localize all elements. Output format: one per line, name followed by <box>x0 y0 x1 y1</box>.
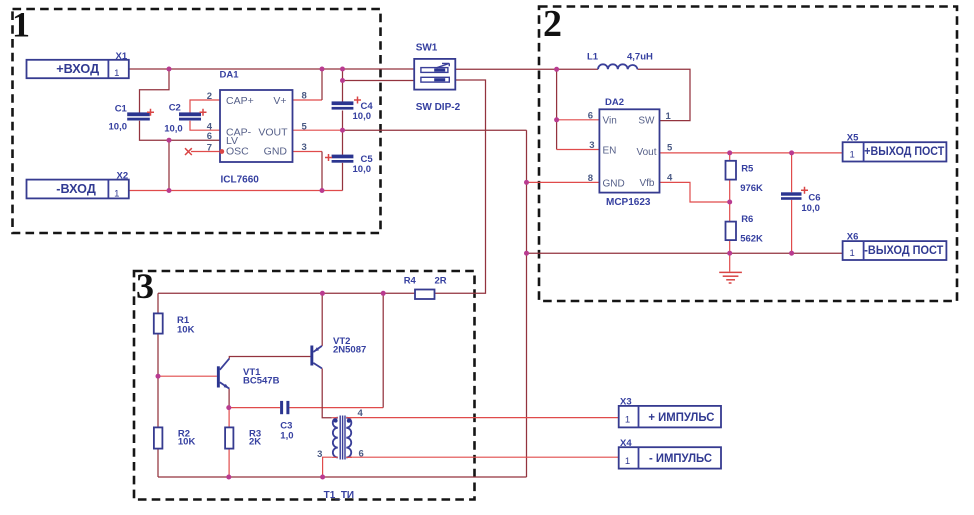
svg-text:3: 3 <box>136 266 154 306</box>
svg-text:X2: X2 <box>117 171 129 182</box>
svg-text:7: 7 <box>207 142 212 153</box>
svg-text:2K: 2K <box>249 437 261 448</box>
svg-text:X1: X1 <box>116 51 128 62</box>
svg-text:GND: GND <box>264 146 288 158</box>
svg-text:C1: C1 <box>115 104 128 115</box>
svg-text:10,0: 10,0 <box>353 164 372 175</box>
svg-text:3: 3 <box>589 140 594 151</box>
svg-text:6: 6 <box>207 131 212 142</box>
svg-text:SW: SW <box>638 116 655 127</box>
svg-text:6: 6 <box>588 111 593 122</box>
svg-text:CAP+: CAP+ <box>226 95 254 107</box>
svg-text:DA2: DA2 <box>605 97 624 108</box>
svg-text:8: 8 <box>588 173 593 184</box>
svg-text:2N5087: 2N5087 <box>333 345 366 356</box>
svg-text:R6: R6 <box>741 214 753 225</box>
svg-text:- ИМПУЛЬС: - ИМПУЛЬС <box>649 451 712 465</box>
svg-text:X5: X5 <box>847 133 859 144</box>
svg-text:-ВХОД: -ВХОД <box>56 181 96 196</box>
svg-text:10,0: 10,0 <box>353 111 372 122</box>
svg-text:6: 6 <box>359 449 364 460</box>
svg-text:1: 1 <box>850 248 855 259</box>
svg-text:GND: GND <box>603 178 625 189</box>
svg-text:R4: R4 <box>404 276 417 287</box>
svg-text:X6: X6 <box>847 232 859 243</box>
svg-text:Vfb: Vfb <box>639 178 654 189</box>
svg-text:10K: 10K <box>178 437 196 448</box>
svg-text:Vout: Vout <box>636 147 656 158</box>
svg-text:-ВЫХОД ПОСТ: -ВЫХОД ПОСТ <box>864 243 944 257</box>
svg-text:3: 3 <box>302 142 307 153</box>
svg-text:2: 2 <box>207 91 212 102</box>
svg-text:1: 1 <box>114 68 119 79</box>
svg-text:5: 5 <box>302 121 308 132</box>
svg-text:1: 1 <box>114 188 119 199</box>
svg-text:C2: C2 <box>169 103 181 114</box>
svg-text:+ВЫХОД ПОСТ: +ВЫХОД ПОСТ <box>864 144 945 158</box>
svg-text:5: 5 <box>667 143 673 154</box>
svg-text:10,0: 10,0 <box>109 122 128 133</box>
svg-text:ICL7660: ICL7660 <box>221 175 260 186</box>
svg-text:10,0: 10,0 <box>164 124 183 135</box>
svg-text:10K: 10K <box>177 325 195 336</box>
svg-text:Vin: Vin <box>603 116 617 127</box>
svg-text:OSC: OSC <box>226 146 249 158</box>
svg-text:X4: X4 <box>620 438 632 449</box>
svg-text:DA1: DA1 <box>220 70 240 81</box>
svg-text:V+: V+ <box>273 95 286 107</box>
svg-text:1: 1 <box>625 415 630 426</box>
svg-text:562K: 562K <box>740 234 763 245</box>
svg-text:Т1_ТИ: Т1_ТИ <box>324 490 355 501</box>
svg-text:1,0: 1,0 <box>280 430 293 441</box>
svg-text:SW1: SW1 <box>416 43 438 54</box>
svg-text:R5: R5 <box>741 164 754 175</box>
svg-text:+ ИМПУЛЬС: + ИМПУЛЬС <box>648 410 714 424</box>
svg-text:L1: L1 <box>587 52 599 63</box>
svg-text:1: 1 <box>12 5 30 45</box>
svg-text:2R: 2R <box>435 276 447 287</box>
svg-text:VOUT: VOUT <box>258 126 288 138</box>
svg-text:X3: X3 <box>620 397 632 408</box>
svg-text:1: 1 <box>850 149 855 160</box>
svg-text:EN: EN <box>603 145 617 156</box>
svg-text:10,0: 10,0 <box>801 203 820 214</box>
svg-text:4,7uH: 4,7uH <box>627 52 653 63</box>
svg-text:4: 4 <box>358 408 364 419</box>
svg-text:BC547B: BC547B <box>243 376 280 387</box>
svg-text:1: 1 <box>666 111 672 122</box>
svg-text:C6: C6 <box>808 193 820 204</box>
svg-text:4: 4 <box>667 173 673 184</box>
svg-text:3: 3 <box>317 449 322 460</box>
svg-text:1: 1 <box>625 456 630 467</box>
svg-text:+ВХОД: +ВХОД <box>56 61 100 76</box>
svg-text:976K: 976K <box>740 183 763 194</box>
svg-text:8: 8 <box>302 91 307 102</box>
svg-text:SW DIP-2: SW DIP-2 <box>416 102 461 113</box>
svg-text:2: 2 <box>543 3 562 45</box>
svg-text:MCP1623: MCP1623 <box>606 197 651 208</box>
